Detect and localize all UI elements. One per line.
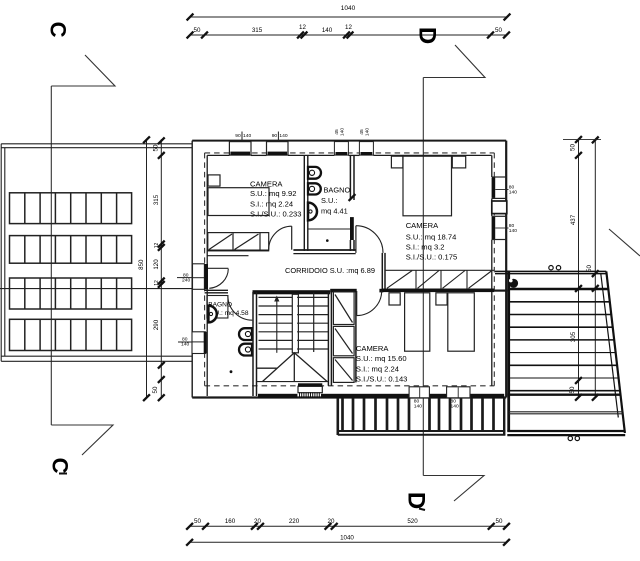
bottom window BW1 [409,387,429,410]
pergola slat row 2 [10,236,132,264]
bottom wall bold band [258,394,297,398]
wall stairwell/wardrobe [328,292,331,386]
pergola slat row 3 [10,278,132,309]
bagno1 fixture wc [308,183,321,194]
bagno2 fixture wc [239,344,252,356]
svg-text:S.U.: mq 9.92: S.U.: mq 9.92 [250,189,296,198]
svg-text:80: 80 [183,272,189,278]
drain circles bottom [568,436,572,440]
svg-text:220: 220 [289,518,300,525]
svg-text:140: 140 [451,403,459,409]
wall corridor/camera2 [382,253,385,292]
camera3 nightstand 1 [389,293,400,305]
bagno1 door leaf bold [350,217,354,240]
section line D vertical [422,78,424,476]
dimension line bottom segmented 50/160/20/220/20/520/50 [186,523,510,530]
camera3 top wall bold [330,289,357,293]
svg-text:50: 50 [569,386,576,393]
bagno1 shower [308,228,350,230]
dimension line left segmented 50/315/12/120/12/290/50 [160,139,162,398]
bagno1 door tick [349,194,356,201]
svg-text:mq 4.41: mq 4.41 [321,206,348,215]
svg-text:S.I.: mq 3.2: S.I.: mq 3.2 [406,242,445,251]
svg-text:90: 90 [235,133,241,139]
svg-text:45: 45 [359,129,365,135]
terrace balusters [343,398,494,431]
svg-text:20: 20 [328,518,335,525]
dimension line right 50/437/305/50 [578,139,580,397]
drain circles top [549,266,553,270]
svg-text:50: 50 [496,518,503,525]
svg-text:80: 80 [182,337,188,343]
wall bagno2/stairwell [253,292,257,396]
section line C leader top [51,55,115,86]
pergola slat row 1 [10,193,132,224]
bottom window BW2 [447,387,470,410]
svg-text:45: 45 [334,129,340,135]
pergola roof outline [1,144,191,361]
svg-text:315: 315 [252,27,263,34]
svg-text:520: 520 [407,518,418,525]
svg-text:140: 140 [509,228,517,234]
terrace railing [338,398,506,435]
svg-text:1040: 1040 [340,535,354,542]
svg-text:315: 315 [153,194,160,205]
svg-text:850: 850 [138,259,145,270]
svg-text:240: 240 [182,277,190,283]
svg-text:S.U.: mq 18.74: S.U.: mq 18.74 [406,232,457,241]
external stair landing double line [509,411,623,413]
svg-text:S.I.: mq 2.24: S.I.: mq 2.24 [356,365,399,374]
dimension line top overall 1040 [187,14,511,21]
stairwell newel [292,294,298,353]
window right RW1 [492,177,518,198]
bagno2 floor drain [230,370,233,373]
hatched band south of camera2 [385,270,494,288]
svg-text:140: 140 [181,342,189,348]
line across pergola [0,288,192,290]
external stair landing edge [507,394,621,396]
svg-text:50: 50 [570,144,577,151]
svg-text:50: 50 [152,386,159,393]
dimension line bottom overall 1040 [186,539,510,546]
camera3 bed 1 [405,293,430,351]
svg-text:140: 140 [243,133,251,139]
house inner dashed perimeter [205,153,495,386]
svg-text:CORRIDOIO S.U. :mq 6.89: CORRIDOIO S.U. :mq 6.89 [285,266,375,275]
bagno2 room label [208,302,249,318]
stairs right flight treads [297,293,328,353]
svg-text:S.I./S.U.: 0.175: S.I./S.U.: 0.175 [406,252,458,261]
bagno1 fixture bidet [308,167,321,179]
dimension extension line top right [563,139,601,141]
bagno2 fixture bidet [239,328,252,340]
camera1 nightstand [208,175,220,186]
svg-text:1040: 1040 [341,5,356,12]
svg-text:120: 120 [153,259,160,270]
wall bagno1/camera2 [350,155,354,251]
svg-text:80: 80 [509,223,515,229]
svg-text:C: C [48,458,73,474]
external stair right edge [606,271,625,433]
external stair top edge [495,270,606,272]
camera2 nightstand right [452,156,465,168]
svg-text:140: 140 [509,190,517,196]
dimension line right outer 437/50 [594,140,596,397]
window top W1 [229,132,251,156]
camera2 door [356,226,383,253]
svg-text:140: 140 [279,133,287,139]
camera2 bed [403,156,452,216]
svg-text:S.I.: mq 2.24: S.I.: mq 2.24 [250,200,293,209]
svg-text:S.U.:: S.U.: [321,196,337,205]
svg-text:12: 12 [345,24,352,31]
bagno1 room label [321,186,350,216]
svg-text:80: 80 [509,185,515,191]
downpipe symbol [509,279,518,288]
svg-text:140: 140 [365,128,371,136]
wall wardrobe/camera3 [355,292,357,382]
corridor west door [207,268,228,288]
pergola slat row 4 [10,319,132,350]
svg-text:50: 50 [153,144,160,151]
camera1 door [269,226,292,250]
window top W4 narrow [359,128,373,156]
bagno2 door [228,296,252,321]
svg-text:D: D [414,27,441,44]
hatched band bottom bold wall [382,289,495,293]
camera3 room label [356,344,408,384]
svg-text:160: 160 [225,518,236,525]
bagno1 sink [308,203,317,221]
svg-text:BAGNO: BAGNO [324,186,351,195]
stairs up arrow [276,299,278,352]
house inner wall left line [206,155,208,396]
camera2 nightstand left [391,156,403,168]
window top W2 [267,132,289,156]
section line D leader bottom [423,476,484,502]
svg-text:50: 50 [194,518,201,525]
window right RW2 [492,216,518,239]
svg-text:CAMERA: CAMERA [406,221,439,230]
external stair bottom edge [507,430,625,432]
svg-text:140: 140 [322,27,333,34]
camera3 nightstand 2 [436,293,447,305]
pergola slat dividers [25,192,117,350]
house inner wall right line [491,155,493,385]
svg-text:C: C [46,22,71,38]
dimension line top segmented 50/315/12/140/12/../50 [187,32,510,39]
wall camera1/bagno1 [304,155,308,251]
camera3 wardrobe [333,292,354,383]
house outer wall [192,141,506,398]
bagno2 shower [207,296,228,319]
section line C leader bottom [51,425,113,455]
external stair steps [509,289,621,391]
camera3 bed 2 [448,293,475,351]
west wall window bagno2 [178,332,207,354]
camera1 bed [208,188,269,216]
external stair left edge [507,271,510,432]
svg-text:90: 90 [272,133,278,139]
section line C vertical [50,86,52,425]
stair exit door bottom [257,382,329,398]
svg-text:S.I./S.U.: 0.233: S.I./S.U.: 0.233 [250,209,302,218]
stairs break V [257,353,328,382]
stairwell top wall bold [253,290,331,294]
svg-text:50: 50 [194,27,201,34]
svg-text:D: D [403,492,430,509]
leader diagonal top right [609,229,640,256]
window right middle box [492,201,507,214]
camera1 wardrobe [208,233,269,251]
camera2 room label [406,221,458,261]
corridor south wall west part [205,290,228,293]
svg-text:50: 50 [495,27,502,34]
svg-text:12: 12 [154,243,160,249]
svg-text:437: 437 [570,214,577,225]
bagno2 sink [208,306,216,323]
svg-text:20: 20 [254,518,261,525]
wall south of camera1 [207,250,356,256]
stairs left flight treads [259,297,293,349]
camera3 door [357,291,382,316]
camera1 room label [250,180,302,219]
window top W3 narrow [334,128,348,156]
house inner wall top line [207,154,491,156]
dimension line left 850 [146,139,148,398]
svg-text:140: 140 [414,403,422,409]
svg-text:12: 12 [154,280,160,286]
svg-text:290: 290 [153,319,160,330]
west wall window corridor [177,264,208,290]
svg-text:140: 140 [340,128,346,136]
wall link to stairs [494,290,507,292]
svg-text:12: 12 [299,24,306,31]
svg-text:S.U.: mq 15.60: S.U.: mq 15.60 [356,354,407,363]
svg-text:S.I./S.U.: 0.143: S.I./S.U.: 0.143 [356,375,408,384]
section line D leader top [423,45,485,78]
svg-text:CAMERA: CAMERA [356,344,389,353]
